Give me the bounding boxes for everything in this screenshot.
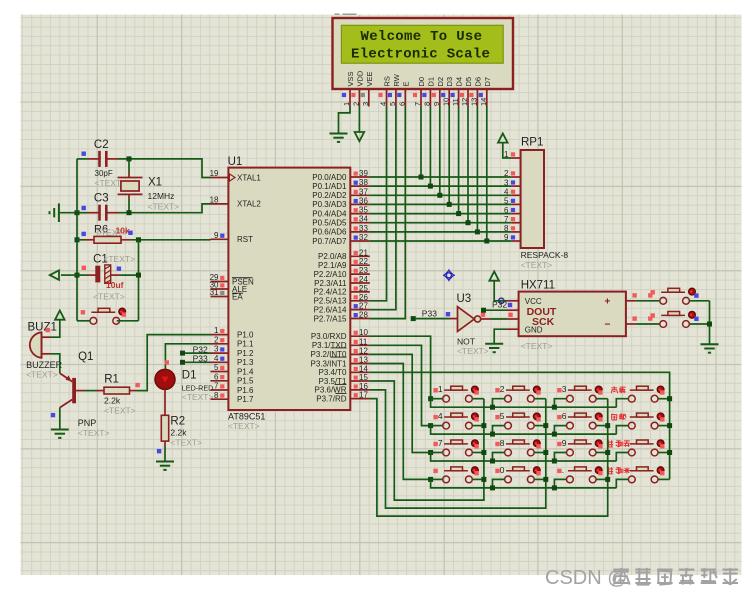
svg-text:<TEXT>: <TEXT>	[93, 292, 125, 302]
wire LCD D1 drop	[429, 107, 431, 187]
U1 pin 15 P3.5/T1	[350, 380, 370, 382]
svg-text:P32: P32	[492, 300, 507, 310]
keypad button row1 col1	[443, 395, 450, 402]
wire C1 to power-left arrow	[61, 274, 77, 276]
svg-text:GND: GND	[525, 325, 543, 334]
svg-text:6: 6	[562, 411, 567, 421]
junction col2 row2	[543, 423, 548, 428]
junction C2/X1 top	[127, 156, 132, 161]
left vertical trunk wire	[76, 159, 78, 321]
svg-text:D3: D3	[445, 77, 454, 87]
resistor R2	[164, 441, 166, 446]
junction col3 row4	[605, 477, 610, 482]
svg-text:P2.7/A15: P2.7/A15	[314, 314, 347, 323]
wire P0.2 row to RP1 pin 4	[370, 194, 512, 196]
U1 pin 22 P2.1/A9	[350, 264, 370, 266]
svg-text:9: 9	[214, 231, 219, 240]
net label P33 at P1.3	[183, 361, 211, 363]
wire P0.1 row to RP1 pin 3	[370, 185, 512, 187]
svg-text:<TEXT>: <TEXT>	[78, 428, 110, 438]
wire power to VCC	[494, 281, 507, 301]
U1 pin 31 EA	[211, 296, 229, 298]
watermark author name (CJK)	[614, 568, 630, 585]
svg-text:D1: D1	[182, 370, 197, 382]
wire LCD D7 drop	[486, 107, 488, 242]
wire col1 row4 contact	[473, 478, 484, 480]
svg-text:7: 7	[438, 438, 443, 448]
U1 pin 9 RST	[211, 238, 229, 240]
svg-text:NOT: NOT	[457, 337, 475, 347]
svg-text:5: 5	[504, 197, 509, 206]
svg-text:D6: D6	[473, 77, 482, 87]
svg-text:Welcome To Use: Welcome To Use	[361, 29, 483, 45]
junction right rail	[707, 322, 712, 327]
svg-text:1: 1	[438, 384, 443, 394]
U1 pin 24 P2.3/A11	[350, 282, 370, 284]
wire RST branch down	[138, 240, 140, 321]
junction D0	[419, 175, 424, 180]
svg-text:<TEXT>: <TEXT>	[228, 421, 260, 431]
svg-text:P0.0/AD0: P0.0/AD0	[312, 173, 347, 182]
svg-text:9: 9	[504, 233, 509, 242]
LCD module LCD1 clipped label	[335, 13, 357, 15]
resistor R1	[96, 390, 104, 392]
LED D1	[155, 369, 175, 389]
svg-text:2: 2	[500, 384, 505, 394]
wire col4 row4 contact	[658, 478, 669, 480]
HX711 module body	[519, 292, 626, 337]
svg-text:P2.3/A11: P2.3/A11	[314, 279, 347, 288]
svg-text:RW: RW	[392, 73, 401, 86]
svg-text:VSS: VSS	[346, 71, 355, 86]
wire LCD D6 drop	[476, 107, 478, 232]
RP1 pin 5	[512, 203, 521, 205]
svg-text:3: 3	[361, 102, 370, 106]
svg-text:D5: D5	[464, 77, 473, 87]
wire row1 to button col1	[431, 398, 443, 400]
wire P0.4 row to RP1 pin 6	[370, 213, 512, 215]
wire button A to right rail	[689, 300, 709, 302]
riser row4 col4	[616, 479, 628, 488]
wire col2 row4 contact	[535, 478, 546, 480]
HX711 pin GND	[507, 328, 519, 330]
junction col3 row3	[605, 450, 610, 455]
wire LCD D5 drop	[467, 107, 469, 223]
wire power to buzzer	[50, 320, 60, 338]
keypad button row2 col1	[443, 422, 450, 429]
svg-text:22: 22	[359, 257, 368, 266]
wire P1.1 to LED	[165, 344, 210, 369]
svg-text:<TEXT>: <TEXT>	[521, 260, 553, 270]
svg-text:1: 1	[342, 102, 351, 106]
U1 pin 36 P0.3/AD3	[350, 203, 370, 205]
keypad button row1 col2	[505, 395, 512, 402]
capacitor C3	[88, 212, 98, 214]
svg-text:1: 1	[504, 150, 509, 159]
HX711 pin SCK	[507, 318, 519, 320]
svg-text:13: 13	[470, 98, 479, 106]
svg-text:2.2k: 2.2k	[170, 428, 187, 438]
wire row2 to button col1	[431, 425, 443, 427]
wire R2 to ground	[164, 447, 166, 462]
power arrow for RP1	[498, 133, 508, 142]
svg-text:XTAL2: XTAL2	[237, 200, 261, 209]
wire LCD D3 drop	[448, 107, 450, 205]
junction sub row1 col2	[490, 405, 495, 410]
svg-text:6: 6	[214, 372, 219, 381]
wire button left	[77, 320, 90, 322]
svg-text:38: 38	[359, 178, 368, 187]
ground for Q1	[51, 429, 69, 431]
svg-text:8: 8	[504, 224, 509, 233]
svg-text:−: −	[605, 320, 611, 331]
HX711 pin -	[626, 323, 636, 325]
svg-text:12: 12	[359, 346, 368, 355]
load cell button B	[660, 321, 667, 328]
wire power to RP1 pin1	[503, 143, 512, 158]
U1 pin 8 P1.7	[211, 398, 229, 400]
svg-text:P1.5: P1.5	[237, 377, 254, 386]
U1 pin 37 P0.2/AD2	[350, 194, 370, 196]
U1 pin 13 P3.3/INT1	[350, 363, 370, 365]
svg-text:7: 7	[504, 215, 509, 224]
svg-text:P1.7: P1.7	[237, 395, 254, 404]
svg-text:34: 34	[359, 215, 368, 224]
wire RW net (LCD pin5 to P2.6)	[370, 107, 396, 310]
svg-text:5: 5	[388, 102, 397, 106]
wire P0.0 row to RP1 pin 2	[370, 176, 512, 178]
svg-text:26: 26	[359, 293, 368, 302]
RP1 pin 4	[512, 194, 521, 196]
svg-text:AT89C51: AT89C51	[228, 412, 265, 422]
wire row1 sub-horizontal	[431, 399, 617, 408]
svg-text:P1.3: P1.3	[237, 358, 254, 367]
wire C2 left to trunk	[77, 158, 88, 160]
svg-text:P33: P33	[422, 308, 437, 318]
svg-text:7: 7	[413, 102, 422, 106]
svg-text:P2.4/A12: P2.4/A12	[314, 288, 347, 297]
svg-text:9: 9	[432, 102, 441, 106]
svg-text:P1.2: P1.2	[237, 349, 254, 358]
wire col2 row1 contact	[535, 398, 546, 400]
svg-text:R1: R1	[104, 374, 119, 386]
junction col1 row3	[481, 450, 486, 455]
wire row3 to button col1	[431, 452, 443, 454]
U1 pin 14 P3.4/T0	[350, 371, 370, 373]
power arrow (left) at C1	[50, 270, 59, 280]
wire RS net (LCD pin4 to P2.5)	[370, 107, 387, 301]
wire R6 left	[77, 239, 85, 241]
wire C1 right	[120, 274, 139, 276]
svg-text:28: 28	[359, 311, 368, 320]
junction sub row3 col2	[490, 459, 495, 464]
svg-text:<TEXT>: <TEXT>	[103, 254, 135, 264]
wire col2 row2 contact	[535, 425, 546, 427]
U1 pin 23 P2.2/A10	[350, 273, 370, 275]
svg-text:Q1: Q1	[78, 351, 93, 363]
svg-text:P3.0/RXD: P3.0/RXD	[311, 332, 347, 341]
svg-text:C3: C3	[94, 193, 109, 205]
svg-text:RST: RST	[237, 235, 253, 244]
junction col4 row1	[667, 396, 672, 401]
HX711 pin VCC	[507, 300, 519, 302]
svg-text:<TEXT>: <TEXT>	[170, 438, 202, 448]
HX711 pin DOUT	[507, 309, 519, 311]
keypad button row2 col4	[628, 422, 635, 429]
svg-text:.: .	[562, 465, 564, 475]
svg-text:P1.4: P1.4	[237, 367, 254, 376]
keypad button row3 col3	[567, 449, 574, 456]
keypad button row3 col1	[443, 449, 450, 456]
junction col3 row2	[605, 423, 610, 428]
svg-text:P0.1/AD1: P0.1/AD1	[312, 182, 347, 191]
junction col1 row2	[481, 423, 486, 428]
svg-text:VCC: VCC	[525, 297, 542, 306]
wire row3 sub-horizontal	[431, 453, 617, 462]
svg-text:10: 10	[359, 328, 368, 337]
svg-text:39: 39	[359, 169, 368, 178]
U1 pin 25 P2.4/A12	[350, 291, 370, 293]
svg-text:VEE: VEE	[365, 71, 374, 86]
U1 pin 19 XTAL1	[211, 177, 229, 179]
svg-text:12: 12	[460, 98, 469, 106]
U1 pin 27 P2.6/A14	[350, 309, 370, 311]
wire R1 to P1.0	[137, 335, 211, 391]
junction row2 col1	[428, 423, 433, 428]
wire X1 top	[128, 159, 130, 173]
riser row3 col2	[493, 453, 505, 462]
svg-text:P3.3/INT1: P3.3/INT1	[310, 359, 347, 368]
HX711 pin +	[626, 300, 636, 302]
junction row3 col1	[428, 450, 433, 455]
junction sub row4 col3	[552, 485, 557, 490]
wire HX711 - to load button B	[636, 323, 660, 325]
wire P3.7 to keypad col3	[370, 399, 608, 516]
svg-text:P0.7/AD7: P0.7/AD7	[312, 237, 347, 246]
svg-text:D0: D0	[417, 77, 426, 87]
wire col3 row1 contact	[596, 398, 607, 400]
svg-text:16: 16	[359, 382, 368, 391]
svg-text:XTAL1: XTAL1	[237, 173, 261, 182]
RP1 pin 2	[512, 176, 521, 178]
net label P33 wire to U3 input	[413, 318, 449, 320]
wire P3.6 to keypad col2	[370, 390, 546, 508]
svg-text:9: 9	[562, 438, 567, 448]
crystal X1	[118, 177, 143, 179]
svg-text:24: 24	[359, 275, 368, 284]
junction sub row3 col3	[552, 459, 557, 464]
wire LCD D0 drop	[420, 107, 422, 178]
wire C3 left to trunk	[77, 212, 88, 214]
wire P3.1 to keypad row2	[370, 345, 431, 425]
capacitor C2	[88, 158, 98, 160]
svg-text:P3.4/T0: P3.4/T0	[318, 368, 347, 377]
junction col2 row4	[543, 477, 548, 482]
svg-text:2: 2	[504, 169, 509, 178]
svg-text:2: 2	[352, 102, 361, 106]
wire HX711 GND to ground	[494, 329, 507, 344]
svg-text:P0.6/AD6: P0.6/AD6	[312, 228, 347, 237]
junction RST/C1 branch	[136, 237, 141, 242]
svg-text:P3.1/TXD: P3.1/TXD	[312, 341, 347, 350]
svg-text:12MHz: 12MHz	[148, 191, 175, 201]
wire P0.7 row to RP1 pin 9	[370, 240, 512, 242]
riser row4 col2	[493, 479, 505, 488]
wire LCD VSS to ground	[339, 107, 351, 134]
wire P3.2 to keypad row3	[370, 354, 431, 452]
svg-text:P2.2/A10: P2.2/A10	[314, 270, 347, 279]
svg-text:32: 32	[359, 233, 368, 242]
svg-text:P3.2/INT0: P3.2/INT0	[310, 350, 347, 359]
svg-text:<TEXT>: <TEXT>	[148, 202, 180, 212]
svg-text:19: 19	[210, 169, 219, 178]
keypad button row2 col3	[567, 422, 574, 429]
U3 NOT gate	[450, 318, 458, 320]
U1 pin 3 P1.2	[211, 352, 229, 354]
svg-text:4: 4	[214, 354, 219, 363]
wire P0.6 row to RP1 pin 8	[370, 231, 512, 233]
U1 pin 11 P3.1/TXD	[350, 344, 370, 346]
wire button right	[117, 320, 139, 322]
svg-text:<TEXT>: <TEXT>	[521, 341, 553, 351]
keypad button row1 col4	[628, 395, 635, 402]
wire P3.5 to keypad col1	[370, 381, 484, 500]
keypad button row4 col3	[567, 476, 574, 483]
svg-text:D7: D7	[483, 77, 492, 87]
svg-text:D2: D2	[436, 77, 445, 87]
wire Q1 base to R1	[84, 390, 96, 392]
power VDD arrow (down)	[355, 132, 365, 141]
svg-text:BUZZER: BUZZER	[26, 360, 63, 370]
svg-text:P0.3/AD3: P0.3/AD3	[312, 200, 347, 209]
LCD LM016L body	[333, 18, 514, 89]
load cell button A	[660, 297, 667, 304]
LCD green screen	[341, 25, 503, 63]
svg-text:1: 1	[214, 326, 219, 335]
svg-text:RP1: RP1	[521, 137, 543, 149]
svg-text:E: E	[401, 81, 410, 86]
U1 pin 28 P2.7/A15	[350, 318, 370, 320]
junction D2	[437, 193, 442, 198]
riser row1 col3	[554, 399, 566, 408]
keypad button row4 col4	[628, 476, 635, 483]
junction trunk at C1 row	[75, 273, 80, 278]
svg-text:D1: D1	[426, 77, 435, 87]
keypad label 去皮 (tare)	[611, 386, 617, 393]
U1 pin 6 P1.5	[211, 380, 229, 382]
wire C1 left	[77, 274, 87, 276]
keypad button row3 col4	[628, 449, 635, 456]
junction col1 row4	[481, 477, 486, 482]
wire col4 row2 contact	[658, 425, 669, 427]
svg-text:10: 10	[441, 98, 450, 106]
U1 pin 39 P0.0/AD0	[350, 176, 370, 178]
wire P3.4 to keypad col4	[370, 372, 670, 479]
riser row1 col4	[616, 399, 628, 408]
svg-text:U1: U1	[228, 156, 243, 168]
junction D6	[475, 229, 480, 234]
wire P0.5 row to RP1 pin 7	[370, 222, 512, 224]
svg-text:P2.0/A8: P2.0/A8	[318, 252, 347, 261]
riser row4 col3	[554, 479, 566, 488]
U1 pin 4 P1.3	[211, 361, 229, 363]
svg-text:+: +	[605, 297, 611, 308]
wire E net (LCD pin6 to P2.7)	[370, 107, 406, 319]
ground for load buttons	[701, 343, 719, 345]
junction D3	[447, 202, 452, 207]
ground for R2	[156, 461, 174, 463]
junction C3/X1 bottom	[127, 210, 132, 215]
svg-text:P2.5/A13: P2.5/A13	[314, 297, 347, 306]
junction sub row1 col3	[552, 405, 557, 410]
keypad button row1 col3	[567, 395, 574, 402]
svg-text:14: 14	[359, 364, 368, 373]
svg-text:8: 8	[423, 102, 432, 106]
U1 pin 17 P3.7/RD	[350, 398, 370, 400]
keypad label 清除 (clear)	[612, 414, 617, 420]
junction col2 row3	[543, 450, 548, 455]
svg-text:8: 8	[500, 438, 505, 448]
U1 pin 26 P2.5/A13	[350, 300, 370, 302]
wire buzzer to Q1 emitter	[50, 354, 60, 373]
svg-text:35: 35	[359, 206, 368, 215]
junction row1 col1	[428, 396, 433, 401]
svg-text:5: 5	[214, 363, 219, 372]
svg-text:18: 18	[210, 196, 219, 205]
svg-text:P1.6: P1.6	[237, 386, 254, 395]
svg-text:17: 17	[359, 391, 368, 400]
svg-text:HX711: HX711	[521, 280, 555, 292]
junction D5	[466, 220, 471, 225]
svg-text:U3: U3	[457, 293, 472, 305]
wire X1 bottom	[128, 199, 130, 213]
wire U3 output to HX711 SCK	[491, 318, 508, 320]
svg-text:P1.1: P1.1	[237, 340, 254, 349]
svg-text:25: 25	[359, 284, 368, 293]
wire col2 row3 contact	[535, 452, 546, 454]
U1 AT89C51 body	[228, 168, 350, 410]
RP1 pin 6	[512, 213, 521, 215]
wire button B to right rail	[689, 323, 709, 325]
svg-text:VDD: VDD	[355, 70, 364, 86]
keypad button row4 col2	[505, 476, 512, 483]
svg-text:37: 37	[359, 187, 368, 196]
svg-text:RS: RS	[383, 76, 392, 86]
svg-text:14: 14	[479, 98, 488, 106]
keypad button row2 col2	[505, 422, 512, 429]
power arrow for HX711 VCC	[489, 272, 499, 281]
U1 pin 33 P0.6/AD6	[350, 231, 370, 233]
junction row4 col1	[428, 477, 433, 482]
reset push button	[90, 317, 97, 324]
svg-text:4: 4	[379, 102, 388, 106]
svg-text:<TEXT>: <TEXT>	[104, 406, 136, 416]
wire P3.3 to keypad row4	[370, 364, 431, 480]
wire LCD VDD to power	[358, 107, 360, 132]
junction trunk at R6 row	[75, 237, 80, 242]
wire to left ground	[60, 212, 77, 214]
wire col4 row1 contact	[658, 398, 669, 400]
svg-text:10uf: 10uf	[106, 280, 124, 290]
keypad button row3 col2	[505, 449, 512, 456]
U1 pin 35 P0.4/AD4	[350, 213, 370, 215]
junction col4 row2	[667, 423, 672, 428]
junction sub row4 col2	[490, 485, 495, 490]
svg-text:21: 21	[359, 248, 368, 257]
svg-text:P0.4/AD4: P0.4/AD4	[312, 209, 347, 218]
wire R6 right to RST	[130, 239, 211, 241]
svg-text:Electronic Scale: Electronic Scale	[351, 47, 490, 63]
